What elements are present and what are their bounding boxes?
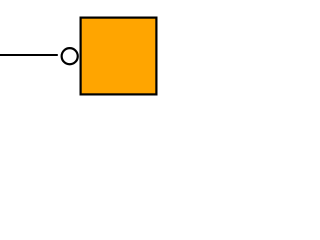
wire (0, 54, 58, 56)
node (open connector circle) (62, 48, 78, 64)
block U1 (orange square) (81, 18, 157, 95)
